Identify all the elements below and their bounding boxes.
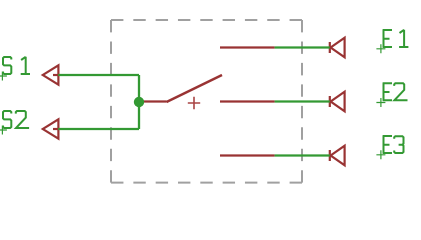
port arrow E3 xyxy=(330,146,345,166)
label E3 origin cross xyxy=(376,150,385,159)
switch symbol outline (dashed box) xyxy=(111,20,302,183)
wire vertical S1-S2 xyxy=(138,75,140,129)
label E3 xyxy=(383,136,404,153)
wire E2 xyxy=(275,100,330,102)
port arrow E1 xyxy=(330,38,345,58)
junction node xyxy=(134,97,144,107)
wire E1 xyxy=(275,46,330,48)
label S1 xyxy=(3,57,30,74)
label E2 origin cross xyxy=(376,98,385,107)
wire S2 xyxy=(58,128,139,130)
port arrow S1 xyxy=(43,65,60,84)
pin E3 xyxy=(220,154,275,156)
switch lever xyxy=(167,75,223,102)
label E1 origin cross xyxy=(376,44,385,53)
pin E2 xyxy=(220,100,275,102)
wire S1 xyxy=(58,74,139,76)
label E1 xyxy=(383,30,409,47)
wire E3 xyxy=(275,154,330,156)
label E2 xyxy=(383,83,408,100)
label S2 xyxy=(3,111,29,128)
part origin cross xyxy=(188,97,200,109)
port arrow S2 xyxy=(43,119,60,138)
switch common stub xyxy=(139,100,167,102)
port arrow E2 xyxy=(330,92,345,112)
label S1 origin cross xyxy=(0,72,7,81)
pin E1 xyxy=(220,46,275,48)
label S2 origin cross xyxy=(0,126,7,135)
